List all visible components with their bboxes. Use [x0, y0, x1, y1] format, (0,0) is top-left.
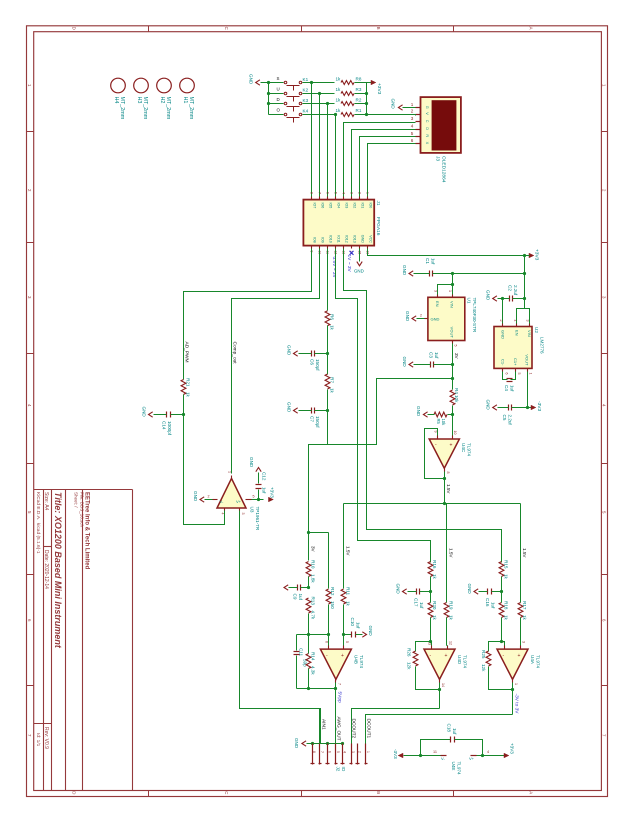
svg-text:R7: R7: [330, 377, 335, 383]
resistor R11 1k: [341, 589, 346, 604]
wire 3v3 bus vertical: [366, 83, 368, 115]
svg-text:IO1: IO1: [361, 203, 365, 209]
wire button K2 to resistor: [303, 93, 335, 95]
svg-text:U3: U3: [250, 507, 255, 513]
capacitor C16 1uF: [487, 589, 489, 595]
U4B pin 6: [328, 646, 330, 650]
svg-text:IO3: IO3: [345, 203, 349, 209]
wire C6 row: [299, 353, 312, 355]
svg-text:1uf: 1uf: [298, 594, 303, 601]
border tick right: [602, 463, 608, 465]
svg-text:IO11: IO11: [337, 235, 341, 243]
svg-text:IO: IO: [341, 767, 346, 772]
svg-text:C: C: [224, 791, 229, 794]
svg-text:-3V to 3V: -3V to 3V: [513, 694, 519, 715]
mounting hole H3: [134, 78, 149, 93]
border tick right: [602, 353, 608, 355]
resistor R7 1k: [325, 374, 330, 389]
border tick top: [301, 26, 303, 32]
svg-text:GND: GND: [287, 402, 292, 413]
capacitor C9 1uF: [297, 585, 299, 591]
J1 top pin IO1: [359, 197, 361, 200]
svg-text:U2: U2: [534, 327, 539, 333]
svg-text:C1+: C1+: [513, 358, 518, 366]
svg-text:C1-: C1-: [501, 359, 506, 366]
svg-text:1k: 1k: [432, 615, 437, 621]
svg-text:4.3k: 4.3k: [311, 666, 316, 675]
wire C2 row: [498, 298, 510, 300]
J1 bottom pin IO12: [343, 246, 345, 249]
svg-text:1V ~ 3V: 1V ~ 3V: [346, 255, 352, 273]
U2 pin VOUT: [527, 369, 529, 372]
wire R10 to junction: [308, 577, 310, 588]
U4E pin 4 V+: [471, 755, 477, 757]
junction -3V3: [526, 406, 529, 409]
svg-text:GND: GND: [361, 235, 365, 243]
wire IO9 to Comp_out: [232, 249, 320, 474]
wire R4 column: [452, 379, 454, 390]
junction C14: [182, 413, 185, 416]
svg-text:2.2uf: 2.2uf: [513, 285, 518, 296]
wire OLED pin2 VCC row: [367, 114, 416, 116]
U4E pin 11 V-: [441, 755, 447, 757]
svg-text:Sheet: /: Sheet: /: [74, 492, 79, 508]
svg-text:IO9: IO9: [321, 237, 325, 243]
svg-text:J3: J3: [435, 156, 441, 161]
wire OLED pin3 to FPGA: [344, 123, 416, 197]
U3 pin 5: [246, 499, 252, 501]
J2 pin 6: [327, 744, 329, 765]
resistor R2 1k: [341, 102, 354, 106]
svg-text:GND: GND: [402, 265, 407, 276]
svg-text:1k: 1k: [185, 392, 190, 398]
svg-text:Comp_out: Comp_out: [232, 342, 238, 365]
svg-text:TL974: TL974: [463, 655, 468, 668]
svg-text:3: 3: [521, 641, 525, 643]
svg-text:GND: GND: [467, 584, 472, 595]
J2 pin 3: [351, 744, 353, 765]
U4A pin 2: [504, 646, 506, 650]
svg-text:1000pf: 1000pf: [167, 421, 172, 436]
svg-text:U1: U1: [467, 298, 472, 304]
svg-text:KiCad E.D.A. kicad (5.1.6)-1: KiCad E.D.A. kicad (5.1.6)-1: [35, 492, 41, 554]
wire U3 pin3 to AIN1: [240, 511, 321, 744]
svg-text:C4: C4: [504, 385, 509, 391]
svg-text:C10: C10: [350, 618, 355, 627]
junction 3v3 bus: [365, 102, 368, 105]
svg-text:2.2uf: 2.2uf: [508, 415, 513, 426]
U1 pin VOUT: [452, 341, 454, 344]
svg-text:R17: R17: [522, 601, 527, 610]
svg-text:R3: R3: [356, 87, 362, 92]
wire button column 3 to FPGA: [335, 115, 337, 197]
svg-text:+3V3: +3V3: [270, 487, 275, 498]
capacitor C14 1000pf: [166, 412, 168, 418]
svg-text:5: 5: [345, 641, 349, 643]
svg-text:4: 4: [411, 124, 414, 129]
capacitor C2 2.2uF: [509, 296, 511, 302]
svg-text:File: DDS_16.sch: File: DDS_16.sch: [79, 492, 84, 528]
svg-text:3V: 3V: [454, 353, 459, 360]
svg-text:C3: C3: [429, 352, 434, 358]
svg-text:1: 1: [514, 683, 518, 685]
power GND symbol FPGA: [357, 262, 362, 266]
svg-text:12k: 12k: [407, 662, 412, 670]
svg-text:GND: GND: [431, 317, 440, 322]
svg-text:TL974: TL974: [359, 655, 364, 668]
svg-text:2: 2: [27, 189, 32, 192]
svg-text:5: 5: [602, 511, 607, 514]
border tick left: [27, 685, 34, 687]
wire R12 to junction row: [328, 605, 330, 635]
svg-text:TL974: TL974: [457, 762, 462, 775]
wire button column 2 to FPGA: [327, 104, 329, 197]
capacitor C3 1uF: [430, 362, 432, 368]
resistor R18 1k: [499, 603, 504, 618]
power GND arrow C5: [493, 405, 497, 410]
U1 pin VIN: [452, 295, 454, 298]
J1 bottom pin IO9: [319, 246, 321, 249]
power GND arrow R5: [423, 412, 427, 417]
svg-text:R18: R18: [503, 601, 508, 610]
capacitor C12 1uF: [258, 490, 260, 500]
svg-text:1uf: 1uf: [491, 602, 496, 609]
border tick right: [602, 685, 608, 687]
svg-text:C9: C9: [293, 594, 298, 600]
wire DCOUT2 route: [352, 709, 440, 744]
svg-text:Rev: V0.9: Rev: V0.9: [43, 727, 49, 749]
wire button gnd bus vertical: [268, 83, 270, 115]
svg-text:1: 1: [411, 102, 414, 107]
svg-text:10k: 10k: [454, 395, 459, 403]
svg-text:7: 7: [317, 192, 321, 194]
U4A pin 1 out: [512, 680, 514, 683]
svg-text:AIN1: AIN1: [321, 719, 327, 730]
svg-text:OLED12864: OLED12864: [441, 156, 447, 183]
svg-text:3: 3: [602, 296, 607, 299]
svg-text:1: 1: [448, 290, 452, 292]
junction C7: [326, 409, 329, 412]
wire +3V3 to U2 VIN loop: [517, 299, 525, 324]
IC U1 body: [428, 297, 465, 340]
svg-text:H3: H3: [136, 97, 142, 104]
svg-text:12k: 12k: [481, 664, 486, 672]
svg-text:H2: H2: [159, 97, 165, 104]
svg-text:1.5V: 1.5V: [346, 546, 351, 556]
wire U4C out: [444, 472, 446, 504]
svg-text:1uf: 1uf: [431, 258, 436, 265]
wire -3V3 to pin11: [404, 755, 441, 757]
J1 top pin IO6: [319, 197, 321, 200]
wire button column 0 to FPGA: [311, 83, 313, 197]
junction U4C out: [443, 477, 446, 480]
wire R16 to junction: [430, 577, 432, 592]
svg-text:D: D: [277, 97, 280, 102]
svg-text:GND: GND: [501, 330, 506, 339]
svg-text:6: 6: [411, 138, 414, 143]
no-connect cross IO13: [350, 251, 354, 255]
svg-text:D: D: [425, 127, 429, 130]
svg-text:A: A: [529, 791, 534, 794]
svg-text:U4C: U4C: [461, 443, 466, 453]
capacitor C5 2.2uF: [508, 405, 510, 411]
svg-text:R6: R6: [330, 314, 335, 320]
wire R19 column: [446, 504, 448, 603]
svg-text:C6: C6: [310, 359, 315, 365]
svg-text:3: 3: [241, 513, 245, 515]
svg-text:GND: GND: [486, 400, 491, 411]
J2 pin 4: [342, 744, 344, 765]
svg-text:GND: GND: [249, 457, 254, 468]
resistor R12 150: [326, 589, 331, 604]
wire U4B out down: [335, 683, 337, 744]
svg-text:IO0: IO0: [369, 203, 373, 209]
junction io column 2: [326, 102, 329, 105]
wire pin4 to +3V3: [477, 755, 505, 757]
svg-text:VCC: VCC: [369, 235, 373, 243]
svg-text:1k: 1k: [330, 325, 335, 331]
resistor R5 10k: [434, 412, 447, 417]
svg-text:GND: GND: [391, 99, 396, 110]
svg-text:150: 150: [330, 601, 335, 609]
svg-text:IO10: IO10: [329, 235, 333, 243]
svg-text:5: 5: [253, 494, 255, 498]
svg-text:C14: C14: [162, 421, 167, 430]
border tick bottom: [148, 791, 150, 797]
J2 pin 7: [319, 744, 321, 765]
wire R12 top tie: [309, 532, 329, 534]
svg-text:R12: R12: [330, 587, 335, 596]
svg-text:C7: C7: [310, 416, 315, 422]
resistor R20 1k: [428, 603, 433, 618]
svg-text:GND: GND: [396, 584, 401, 595]
svg-text:H4: H4: [113, 97, 119, 104]
title block divider date: [44, 546, 52, 548]
svg-text:EN: EN: [515, 330, 520, 336]
svg-text:IO12: IO12: [345, 235, 349, 243]
mounting hole H4: [111, 78, 126, 93]
U4C pin 9 minus: [437, 436, 439, 440]
svg-text:U4B: U4B: [354, 655, 359, 664]
svg-text:1uf: 1uf: [510, 385, 515, 392]
svg-text:3: 3: [27, 296, 32, 299]
junction C10: [342, 633, 345, 636]
svg-text:8: 8: [446, 472, 450, 474]
svg-text:G: G: [425, 106, 429, 109]
title block divider rev: [34, 723, 52, 725]
border tick right: [602, 242, 608, 244]
svg-text:6: 6: [327, 751, 331, 753]
svg-text:4: 4: [513, 320, 517, 322]
svg-text:GND: GND: [294, 738, 299, 749]
wire J2 gnd bus: [307, 743, 343, 745]
svg-text:R10: R10: [311, 560, 316, 569]
title block outline: [132, 490, 134, 791]
wire GND to button bus: [261, 82, 269, 84]
U1 pin GND: [425, 318, 428, 320]
wire R11 to junction row: [343, 605, 345, 635]
J2 pin 8: [312, 744, 314, 765]
svg-text:AWG_OUT: AWG_OUT: [335, 717, 341, 741]
svg-text:A: A: [529, 27, 534, 30]
wire IO11 route: [336, 249, 431, 563]
svg-text:S: S: [277, 76, 280, 81]
border tick top: [453, 26, 455, 32]
svg-text:1uf: 1uf: [262, 487, 267, 494]
wire resistor R1 to 3V3 bus: [355, 114, 367, 116]
svg-text:V-: V-: [441, 756, 445, 761]
svg-text:1k: 1k: [503, 574, 508, 580]
svg-text:150pf: 150pf: [315, 416, 320, 428]
svg-text:FPGA16: FPGA16: [375, 217, 381, 236]
U2 pin VIN: [529, 324, 531, 327]
wire button column 1 to FPGA: [319, 94, 321, 197]
wire bus to button K1: [269, 82, 284, 84]
svg-text:8: 8: [309, 192, 313, 194]
svg-text:3: 3: [434, 290, 438, 292]
wire 1.5V rail: [344, 503, 521, 505]
power -3V3 arrow U4E: [398, 753, 403, 758]
U4A pin 3: [520, 646, 522, 650]
junction U4D minus: [429, 640, 432, 643]
svg-text:O: O: [277, 108, 281, 113]
svg-text:R20: R20: [432, 601, 437, 610]
svg-text:1uf: 1uf: [452, 728, 457, 735]
border tick bottom: [453, 791, 455, 797]
junction C1 row U1: [451, 272, 454, 275]
svg-text:C11: C11: [298, 648, 303, 657]
U3 pin 3: [239, 509, 241, 511]
border tick top: [148, 26, 150, 32]
svg-text:IO7: IO7: [313, 203, 317, 209]
svg-text:R26: R26: [407, 648, 412, 657]
J2 pin 2: [357, 744, 359, 765]
junction 3V R4: [451, 377, 454, 380]
svg-text:1uf: 1uf: [434, 352, 439, 359]
svg-text:R5: R5: [436, 419, 441, 425]
svg-text:C1: C1: [425, 258, 430, 264]
svg-text:MT_2mm: MT_2mm: [188, 97, 194, 120]
svg-text:150pf: 150pf: [315, 359, 320, 371]
power GND arrow OLED: [398, 105, 402, 110]
svg-text:1.5V: 1.5V: [446, 484, 451, 494]
power GND arrow button bus: [256, 80, 260, 85]
op-amp U4C body: [429, 439, 459, 468]
U4C pin 8 out: [444, 469, 446, 472]
svg-text:1: 1: [366, 751, 370, 753]
wire C5 row: [498, 407, 509, 409]
wire C14 down to U3 pin4: [184, 415, 225, 525]
op-amp U4B body: [320, 649, 351, 679]
svg-text:GND: GND: [368, 626, 373, 637]
svg-text:3: 3: [411, 116, 414, 121]
svg-text:R25: R25: [481, 650, 486, 659]
capacitor C1 1uF: [429, 271, 431, 277]
J1 top pin IO0: [367, 197, 369, 200]
svg-text:VOUT: VOUT: [525, 354, 530, 366]
svg-text:7: 7: [27, 734, 32, 737]
J3 pin 1: [416, 107, 421, 109]
svg-text:EN: EN: [435, 301, 440, 307]
svg-text:V-: V-: [220, 499, 224, 504]
svg-text:7: 7: [337, 683, 341, 685]
wire R18 to U4A minus: [501, 618, 503, 642]
junction button bus: [267, 102, 270, 105]
svg-text:1k: 1k: [330, 388, 335, 394]
U4D pin 13: [431, 646, 433, 650]
U4C pin 10 plus: [452, 436, 454, 440]
wire R19 to U4D plus: [446, 618, 448, 646]
svg-text:4.7k: 4.7k: [311, 611, 316, 620]
wire bus to button K3: [269, 103, 284, 105]
op-amp U3 body: [217, 478, 246, 508]
border tick left: [27, 353, 34, 355]
svg-text:8: 8: [312, 751, 316, 753]
svg-text:+3V3: +3V3: [510, 743, 515, 754]
svg-text:TP1961-TR: TP1961-TR: [255, 507, 260, 531]
wire R12 column: [328, 533, 330, 589]
svg-text:11: 11: [433, 750, 437, 754]
wire chain to 3V rail: [327, 411, 329, 445]
wire resistor R2 to 3V3 bus: [355, 103, 367, 105]
svg-text:5: 5: [333, 192, 337, 194]
wire R11 column: [343, 504, 345, 589]
svg-text:+: +: [341, 653, 344, 659]
svg-text:-3V3: -3V3: [393, 749, 398, 759]
svg-text:C17: C17: [414, 598, 419, 607]
wire U1 VIN/EN loop: [438, 274, 453, 295]
svg-text:IO2: IO2: [353, 203, 357, 209]
U2 pin C1+: [515, 369, 517, 372]
U3 pin 4: [224, 509, 226, 511]
wire R5 junction to pin10: [452, 415, 454, 436]
svg-text:GND: GND: [193, 491, 198, 502]
svg-text:V+: V+: [236, 499, 242, 504]
wire FPGA GND pin: [359, 249, 361, 262]
J1 bottom pin IO13: [351, 246, 353, 249]
svg-text:1k: 1k: [432, 574, 437, 580]
svg-text:R1: R1: [356, 108, 362, 113]
svg-text:R4: R4: [454, 388, 459, 394]
J3 pin 5: [416, 136, 421, 138]
wire C1 row: [414, 273, 430, 275]
svg-text:IO8: IO8: [313, 237, 317, 243]
svg-text:+3V3: +3V3: [376, 83, 382, 95]
resistor R16 1k: [428, 562, 433, 577]
svg-text:B: B: [376, 791, 381, 794]
svg-text:MT_2mm: MT_2mm: [165, 97, 171, 120]
wire R17 column: [520, 504, 522, 603]
svg-text:U4D: U4D: [457, 655, 462, 665]
wire OLED pin6 to FPGA: [368, 144, 416, 197]
wire U4D out down: [439, 683, 441, 709]
svg-text:VIN: VIN: [527, 330, 532, 337]
wire 3V to left: [309, 379, 453, 561]
junction C17: [429, 590, 432, 593]
junction row U4B: [297, 634, 329, 636]
svg-text:R2: R2: [356, 98, 362, 103]
wire FPGA VCC to +3V3 rail: [368, 249, 525, 256]
J3 pin 4: [416, 129, 421, 131]
svg-text:R: R: [425, 134, 429, 137]
J3 pin 3: [416, 121, 421, 123]
svg-text:5: 5: [517, 373, 521, 375]
wire IO10 chain top: [327, 249, 329, 311]
wire button K1 to resistor: [303, 82, 335, 84]
wire R21 to C14: [183, 395, 185, 415]
svg-text:+3V3: +3V3: [534, 249, 540, 261]
IC J1 FPGA16 body: [303, 200, 374, 246]
